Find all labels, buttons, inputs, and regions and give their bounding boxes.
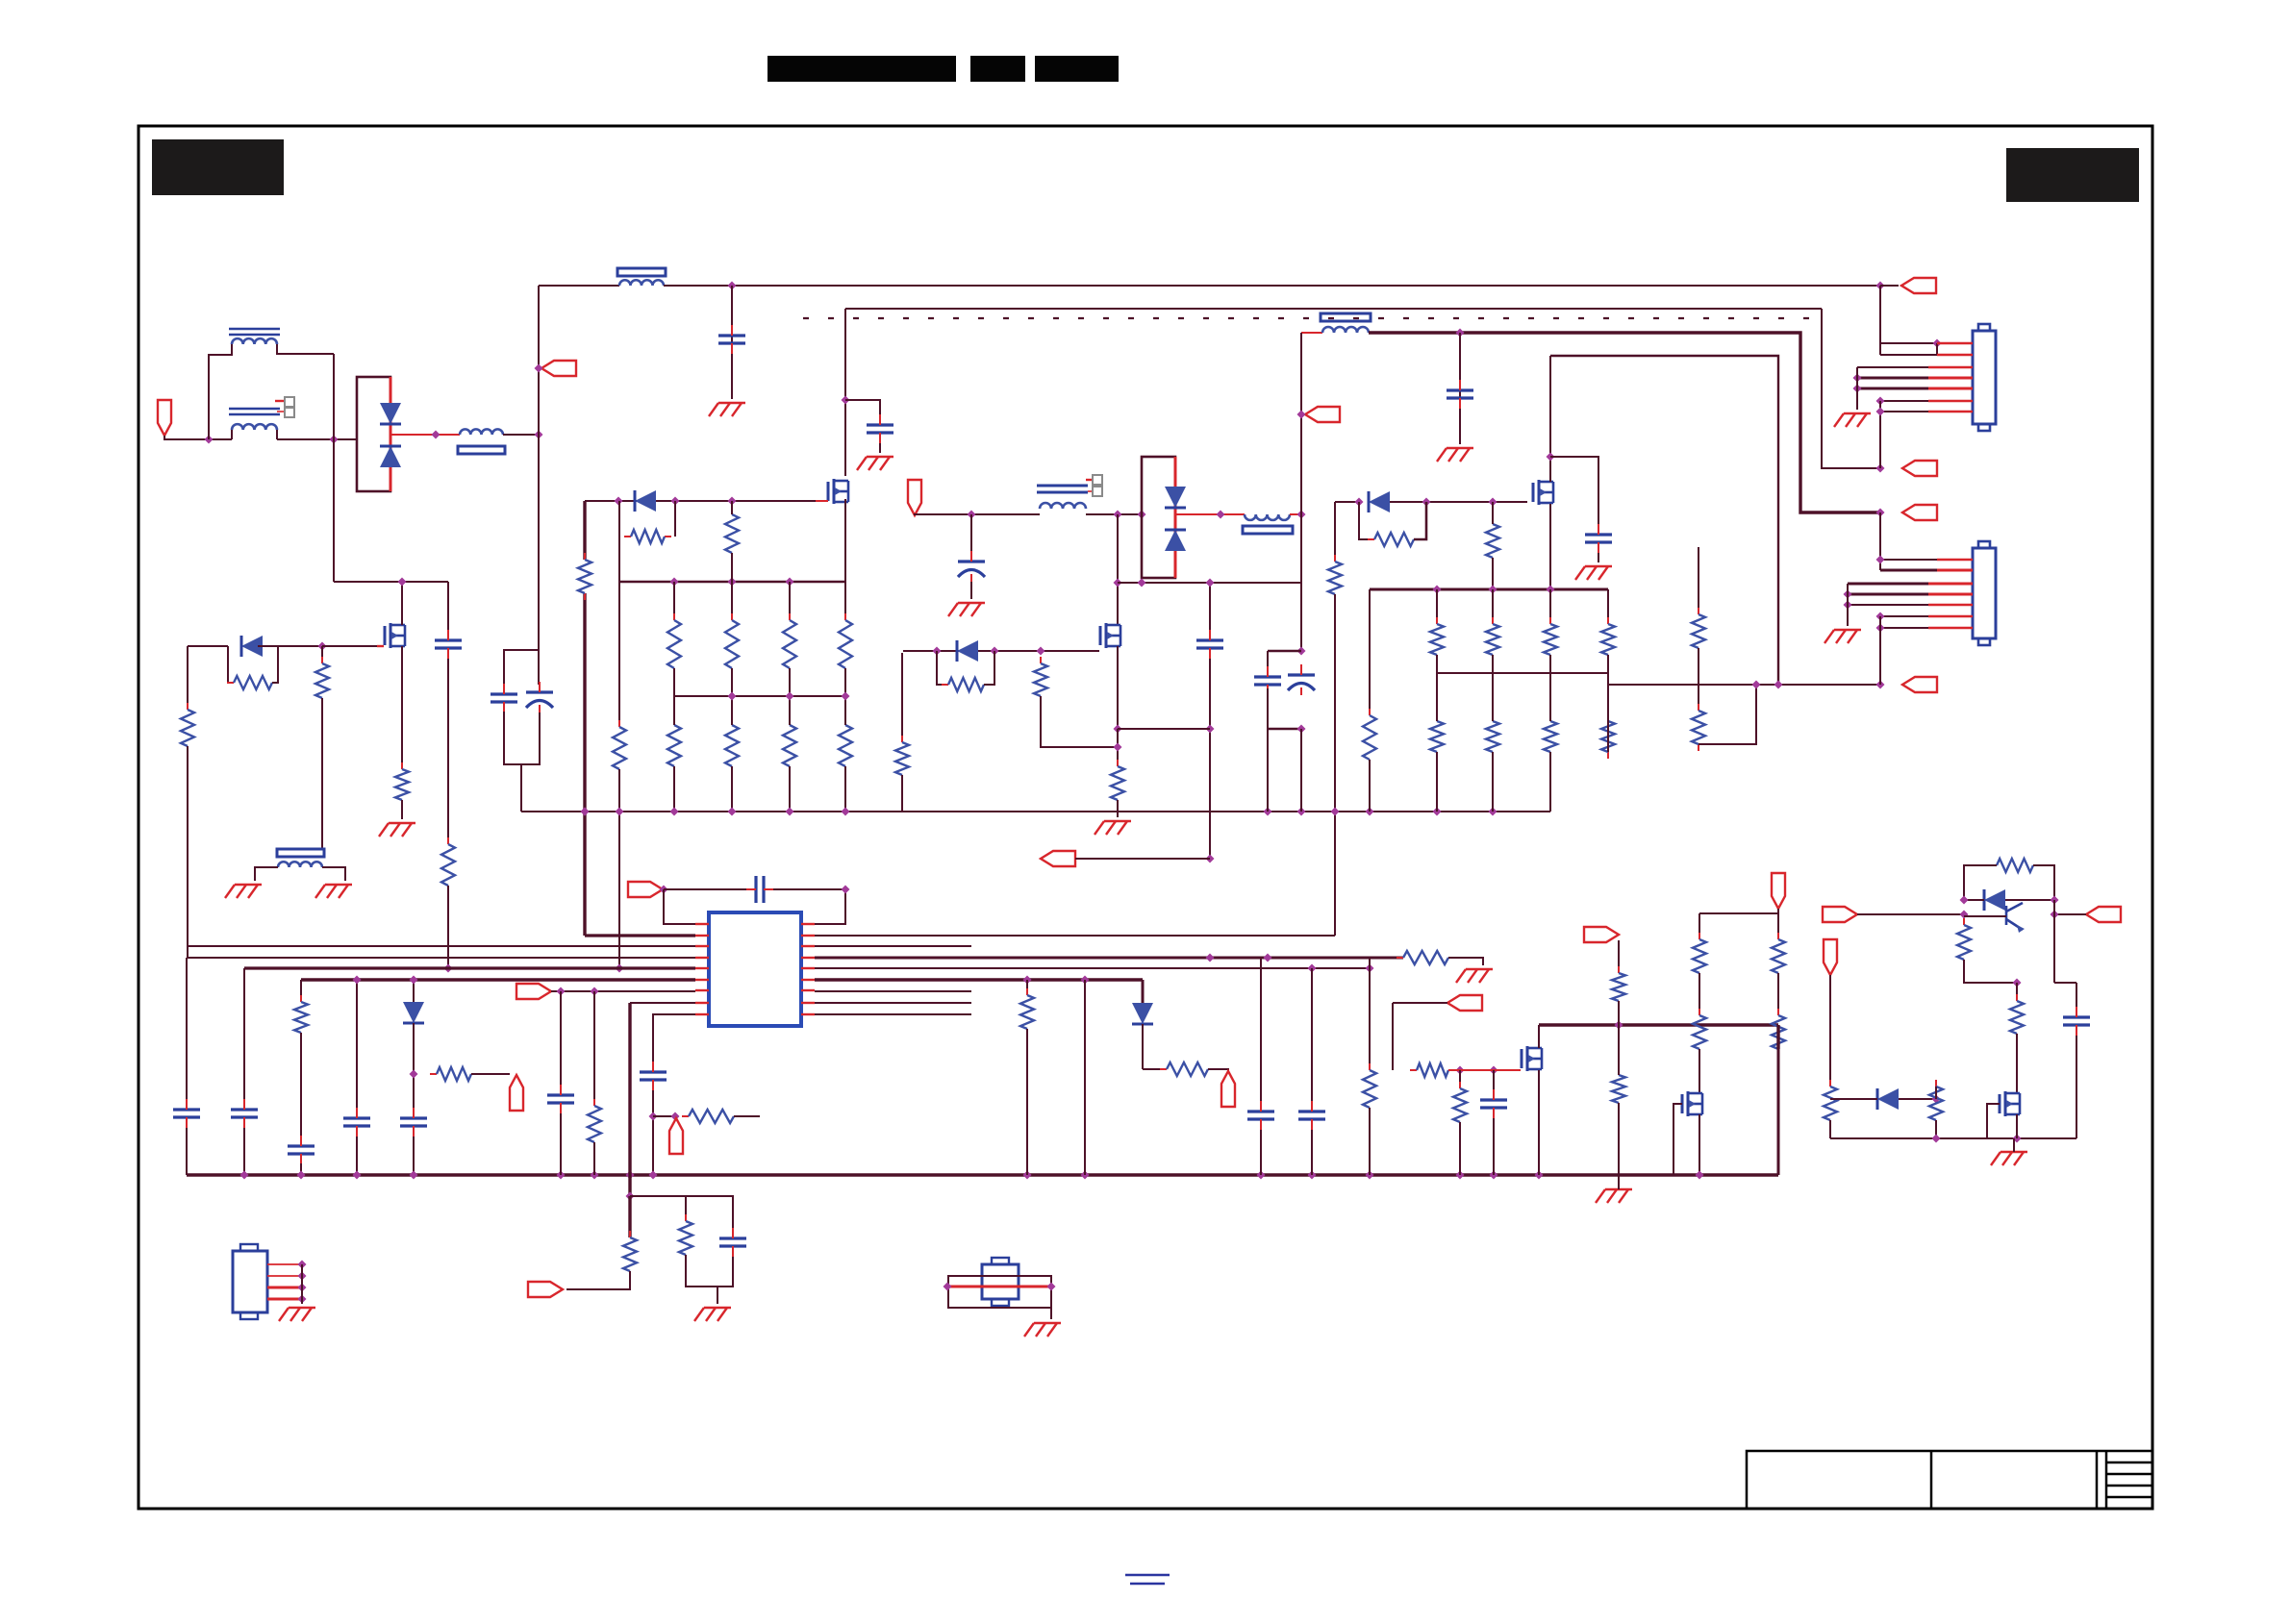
wire x608 thick b [583, 593, 586, 936]
node bus1222 313 [297, 1171, 306, 1180]
wire c925 up [2076, 983, 2077, 1007]
wire gate col x938 [901, 653, 903, 742]
varistor ZR901 box [357, 377, 390, 491]
resistor R917 [395, 762, 409, 807]
wire tp903 lead [1777, 909, 1779, 913]
wire col879 a [844, 582, 846, 620]
wire pcap drop [970, 514, 972, 551]
node cn1 p6 [1876, 397, 1885, 406]
mosfet Q901 [828, 479, 848, 504]
wire col701 b [673, 668, 675, 696]
wire y672 seg2 [258, 645, 322, 647]
wire r940 down [1459, 1122, 1461, 1175]
varistor ZR902 box [1142, 457, 1175, 578]
wire pair2 l b [1267, 688, 1269, 729]
wire cn1 p4 [1857, 377, 1928, 380]
wire b2 1612 d [1549, 752, 1551, 812]
wire branch cap [686, 1196, 733, 1228]
diode D911 [1877, 1088, 1899, 1110]
resistor R951 [1929, 1080, 1943, 1127]
node bus1222 655 [626, 1171, 635, 1180]
resistor R936 [1363, 1063, 1376, 1114]
wire q906 src [1699, 1114, 1700, 1175]
node bus1222 618 [591, 1171, 599, 1180]
capacitor C917 [288, 1136, 315, 1164]
pin U901 R2 [801, 935, 815, 937]
node y844 1318 [1264, 808, 1272, 816]
resistor R912 [1368, 533, 1421, 546]
node q903 d [1547, 453, 1555, 462]
wire d907 box l [228, 646, 234, 683]
wire x1188 low [1142, 1024, 1144, 1069]
resistor R927 [1544, 714, 1557, 759]
resistor R948 [1957, 918, 1971, 966]
node y844 821 [786, 808, 794, 816]
node snub tap [842, 396, 850, 405]
node cn903 p3 [298, 1284, 307, 1292]
diode D902 [380, 446, 401, 467]
wire cn903 gnd rail [301, 1264, 303, 1304]
wire x1683 b [1618, 1001, 1620, 1025]
pin choke aux2 [277, 411, 285, 412]
wire r957 out [734, 1115, 760, 1117]
wire x1683 c [1618, 1025, 1620, 1075]
wire gnd17 lead [2013, 1138, 2015, 1152]
resistor R934 [679, 1214, 692, 1262]
wire pwm line [1075, 858, 1210, 860]
wire r902 left riser [618, 501, 620, 537]
wire q902 src2 [1117, 729, 1119, 766]
wire q905 src [1538, 1070, 1540, 1175]
inductor L905 core [277, 849, 324, 857]
wire bottom rail y844 [521, 811, 1550, 812]
wire bank1 mid rail [674, 695, 846, 697]
node d911 r [1932, 1095, 1941, 1104]
node y844 1424 [1366, 808, 1374, 816]
wire x679 low [652, 1090, 654, 1175]
diode D912 [635, 490, 656, 512]
inductor L904 core [1243, 526, 1293, 534]
pin CN902-7 [1928, 627, 1973, 629]
wire x1068 col b [1026, 1029, 1028, 1175]
wire q902 gate line [903, 650, 1099, 652]
wire x583 col b [560, 1113, 562, 1175]
wire x430 col [413, 980, 415, 1002]
wire h1 arrow stub [1880, 285, 1899, 287]
ground GND5 [1575, 566, 1612, 580]
resistor R904 [667, 613, 681, 675]
node led g1 [1456, 1066, 1465, 1075]
wire x618 col [593, 991, 595, 1106]
wire c904 gnd lead [879, 443, 881, 453]
node r931 tap [410, 1070, 418, 1079]
ground GND16 [1596, 1189, 1632, 1203]
resistor R919 [181, 703, 194, 753]
resistor R955 [1692, 608, 1705, 655]
wire choke br pin [276, 430, 278, 439]
pin CN901-4 [1928, 377, 1973, 380]
wire col701 a [673, 582, 675, 620]
wire q903 drain loop [1550, 356, 1778, 685]
wire q904 drain [401, 582, 403, 625]
wire col701 c [673, 696, 675, 725]
inductor L903 coil [1322, 327, 1369, 333]
wire bridge out [390, 434, 460, 436]
wire pair2 l a [1267, 651, 1269, 673]
wire x1162 down [1117, 514, 1119, 624]
wire r917 lead [401, 800, 403, 819]
wire base wire [1964, 915, 2006, 917]
wire bulk top [504, 650, 539, 685]
node cn1 p7 [1876, 408, 1885, 416]
wire b2 1612 c [1549, 673, 1551, 721]
node tp2 branch [649, 1112, 658, 1121]
node cn1 g1 [1853, 374, 1862, 383]
wire q905 drain [1538, 1025, 1540, 1048]
node q908 top [2013, 979, 2022, 987]
wire bus y984R [815, 945, 971, 947]
node gs l [1355, 498, 1364, 507]
wire r952 down [731, 553, 733, 582]
wire comp line [664, 888, 746, 890]
test pad 1 [285, 397, 294, 407]
resistor R943 [1693, 933, 1706, 980]
wire col x1766 top [1698, 547, 1699, 614]
node cn1 g2 [1853, 385, 1862, 393]
wire gate q905 [1448, 1069, 1521, 1071]
wire x1388 fb [1334, 594, 1336, 936]
node x608 y844 [581, 808, 590, 816]
wire d909 corner [1143, 1068, 1167, 1070]
node bus1222 430 [410, 1171, 418, 1180]
wire x644 bus drop [618, 812, 620, 968]
connector LED_V [1584, 927, 1619, 942]
node g901 a [615, 497, 623, 506]
capacitor C904 [867, 414, 893, 443]
wire c925 link [2054, 982, 2076, 984]
wire H1 rail [664, 285, 1880, 287]
wire x313 col c [300, 1163, 302, 1175]
node y844 1353 [1297, 808, 1306, 816]
capacitor C914 [640, 1062, 667, 1090]
transformer T902 coil [1040, 503, 1086, 509]
resistor R929 [1363, 709, 1376, 766]
resistor R924 [1601, 617, 1615, 662]
node bus1222 583 [557, 1171, 566, 1180]
connector DIM [1447, 995, 1482, 1011]
ground GND6 [1095, 821, 1131, 835]
pin U901 R1 [801, 923, 815, 925]
wire x1849 a [1777, 913, 1779, 939]
capacitor C922 [1247, 1101, 1274, 1130]
wire bulk drop [520, 764, 522, 812]
wire b2 1672 d [1607, 685, 1609, 752]
wire b2 1612 b [1549, 655, 1551, 673]
diode D901 [380, 403, 401, 424]
wire comp right [773, 889, 845, 924]
ground GND9 [315, 885, 352, 898]
drawing frame [138, 126, 2152, 1509]
resistor R915 [1034, 657, 1047, 703]
node x644 bus [616, 964, 624, 973]
resistor R952 [725, 508, 739, 560]
resistor R928 [1601, 714, 1615, 759]
node x1258 top [1206, 579, 1215, 587]
wire cn2 p2 [1880, 569, 1937, 572]
wire y672 seg1 [188, 645, 228, 647]
wire cn1 p2 [1880, 354, 1937, 356]
wire ZR902 red edge [1174, 457, 1177, 578]
node x1258 pwm [1206, 855, 1215, 863]
wire x1424 a [1369, 589, 1371, 715]
node cn903 p1 [298, 1261, 307, 1269]
node x1766 y712 [1752, 681, 1761, 689]
capacitor C920 [547, 1085, 574, 1113]
wire x1767 c [1699, 1049, 1700, 1093]
wire H3 right [1369, 333, 1880, 512]
wire d910 l [1964, 899, 1984, 901]
resistor R938 [1020, 988, 1034, 1036]
capacitor C925 [2063, 1007, 2090, 1036]
wire x1318 down [1267, 729, 1269, 812]
wire x430 col c [413, 1137, 415, 1175]
wire F901 red line [947, 1286, 1051, 1288]
wire r902 right riser [674, 501, 676, 537]
node bank1 m821 [786, 692, 794, 701]
title block [1747, 1451, 2152, 1509]
inductor L903 core [1321, 313, 1371, 321]
connector CN901 [1973, 324, 1996, 431]
wire snub link [845, 400, 880, 414]
wire x335 drop [321, 646, 323, 663]
node led g2 [1490, 1066, 1498, 1075]
node h2 arrow [1876, 464, 1885, 473]
wire cn2 gnd rail [1847, 584, 1849, 626]
node aux pcap [968, 511, 976, 519]
node bus1222 254 [240, 1171, 249, 1180]
wire b2 1494 a [1436, 589, 1438, 624]
node r915 src [1114, 743, 1122, 752]
node x371 top [353, 976, 362, 985]
wire gnd16 lead [1618, 1175, 1620, 1189]
wire bus y1019L [301, 978, 695, 982]
node b2 1552 [1489, 586, 1497, 594]
wire col761 c [731, 696, 733, 725]
title box top-left [152, 139, 284, 195]
node y844 761 [728, 808, 737, 816]
capacitor C916 [231, 1099, 258, 1128]
ground GND15 [1456, 969, 1493, 983]
ground GND8 [225, 885, 262, 898]
wire q903 drain [1549, 356, 1551, 482]
wire bus y1031R [815, 990, 971, 992]
node tp2 [671, 1112, 680, 1121]
node b_plus aux [1297, 511, 1306, 519]
wire b2 1672 a [1607, 589, 1609, 624]
capacitor C924 [1480, 1089, 1507, 1118]
wire y758 [1118, 728, 1210, 730]
wire x195 bus tie [187, 946, 189, 958]
wire bus y973L [585, 934, 695, 937]
node bus1222 1600 [1535, 1171, 1544, 1180]
resistor R913 [1111, 760, 1124, 807]
wire x1311 col [1260, 958, 1262, 1101]
node bus1222 1424 [1366, 1171, 1374, 1180]
wire c906 lead [1598, 553, 1599, 562]
wire q903 source [1549, 504, 1551, 589]
wire x1258 b [1209, 659, 1211, 859]
node h1 end [1876, 282, 1885, 290]
pin CN902-5 [1928, 604, 1973, 606]
diode D904 [1165, 530, 1186, 551]
wire bank1 top rail [619, 581, 845, 583]
mosfet Q908 [2000, 1091, 2020, 1116]
resistor R914 [942, 678, 991, 691]
wire L905 left pin [255, 867, 278, 881]
capacitor C918 [343, 1108, 370, 1137]
node rail560 [535, 431, 543, 439]
node x1258 y758 [1206, 725, 1215, 734]
connector TP902 [1221, 1071, 1235, 1107]
wire gs loop [1359, 502, 1374, 539]
capacitor C921 [719, 1228, 746, 1257]
resistor R902 [624, 530, 671, 543]
diode D907 [241, 636, 263, 657]
wire x194 col b [186, 1128, 188, 1175]
connector B_PLUS [1902, 505, 1937, 520]
wire x1353 down [1300, 729, 1302, 812]
wire y606 link [1118, 582, 1301, 584]
wire cn2 p67 rail [1879, 616, 1881, 685]
node bank1 t821 [786, 578, 794, 587]
node y1030 a [557, 987, 566, 996]
wire x195 upper [187, 646, 189, 710]
node h3 cap tap [1456, 329, 1465, 337]
wire cn2 p3 [1848, 583, 1928, 586]
node h3 arrow [1876, 509, 1885, 517]
wire y1066 thick [1539, 1023, 1778, 1026]
node y1066 a [1615, 1021, 1623, 1030]
wire q901 gate line [585, 500, 816, 502]
wire bus y1055R [815, 1013, 971, 1015]
node y605 q904 [398, 578, 407, 587]
pin CN901-7 [1928, 411, 1973, 412]
pin T902 a [1086, 479, 1093, 481]
wire x1767 b [1699, 973, 1700, 1015]
pin U901 R4 [801, 957, 815, 959]
wire H1 left [539, 285, 619, 287]
resistor R946 [1772, 1009, 1785, 1056]
wire x655 branch [630, 1196, 686, 1221]
capacitor C905 polarized [958, 551, 985, 582]
wire x1353 spine top [1300, 333, 1302, 514]
wire bus y996L [187, 957, 695, 959]
node cn1 p1 [1933, 339, 1942, 348]
choke T901 top winding [232, 338, 277, 344]
pin CN903-3 [267, 1287, 302, 1289]
pin CN902-4 [1928, 593, 1973, 596]
pin q904 gate [377, 645, 384, 647]
node y844 1552 [1489, 808, 1497, 816]
resistor R937 [1160, 1062, 1215, 1076]
node cn2 g1 [1844, 590, 1852, 599]
node ac j1 [205, 436, 214, 444]
wire r940 top [1459, 1070, 1461, 1088]
wire r951 up [1935, 1087, 1937, 1099]
test pad 2 [285, 408, 294, 417]
wire r948 down [1964, 960, 2017, 983]
connector VREF [516, 984, 551, 999]
resistor R911 [839, 718, 852, 773]
redaction bar 3 [1035, 56, 1119, 82]
node cn2 p6 [1876, 612, 1885, 621]
wire c925 down [2076, 1036, 2077, 1138]
mosfet Q906 [1682, 1091, 1702, 1116]
node y996 a [1206, 954, 1215, 962]
wire col761 b [731, 668, 733, 696]
node y1019 b [1081, 976, 1090, 985]
ground GND11 [1824, 630, 1861, 643]
wire col821 d [789, 766, 791, 812]
wire y950 [1699, 912, 1778, 914]
connector COMP [628, 882, 663, 897]
resistor R923 [1544, 617, 1557, 662]
wire x1364 col b [1311, 1130, 1313, 1175]
resistor R949 [2010, 994, 2024, 1040]
node bus1222 371 [353, 1171, 362, 1180]
node y844 644 [616, 808, 624, 816]
node bank1 t701 [670, 578, 679, 587]
redaction bar 1 [768, 56, 956, 82]
node y1007 b [1366, 964, 1374, 973]
capacitor C906 [1585, 524, 1612, 553]
wire bus y1030L [551, 990, 695, 992]
wire x254 col [243, 968, 245, 1099]
resistor R918 [441, 837, 455, 892]
pin U901 L6 [695, 979, 709, 981]
resistor R954 [1328, 555, 1342, 601]
wire d910 r [2005, 899, 2054, 901]
connector CN902 [1973, 541, 1996, 645]
wire cn1 p6 [1880, 400, 1928, 402]
connector 5V_SB [2086, 907, 2121, 922]
choke T901 core [229, 329, 280, 414]
pin U901 R8 [801, 1002, 815, 1004]
component F901 frame [948, 1276, 1051, 1308]
wire x879 drain [844, 309, 846, 476]
node q902 g2 [991, 647, 999, 656]
wire r947 l [1964, 865, 1997, 900]
resistor R957 [682, 1110, 741, 1123]
wire r951 down [1935, 1120, 1937, 1138]
wire cn1 p1 [1880, 342, 1937, 344]
wire dim drop [1392, 1003, 1394, 1070]
wire x466 c [447, 886, 449, 968]
title box top-right [2006, 148, 2139, 202]
wire bulk bottom [504, 712, 540, 764]
wire r952 up [731, 501, 733, 514]
resistor R916 [227, 676, 279, 689]
choke T901 bottom winding [232, 424, 277, 430]
pin CN903-1 [267, 1263, 302, 1265]
capacitor C915 [173, 1099, 200, 1128]
pin U901 L3 [695, 945, 709, 947]
node bus1222 679 [649, 1171, 658, 1180]
wire x195 lower [187, 746, 189, 946]
wire x194 col [186, 958, 188, 1099]
wire x608 thick a [583, 501, 586, 560]
resistor R930 [294, 995, 308, 1039]
